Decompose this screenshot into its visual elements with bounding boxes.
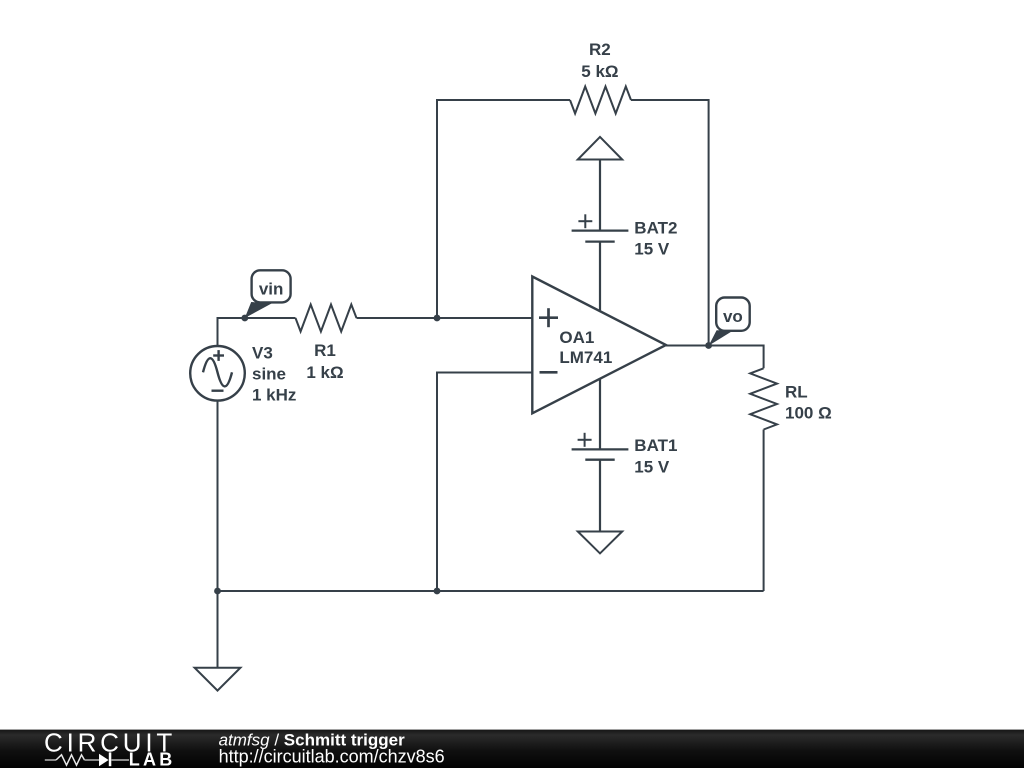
svg-text:100 Ω: 100 Ω	[785, 404, 832, 423]
svg-text:RL: RL	[785, 383, 808, 402]
wire R2 right down to output node	[631, 100, 709, 346]
bottom rail wire	[218, 590, 764, 592]
CircuitLab logo wordmark	[44, 727, 176, 757]
voltage source V3	[190, 346, 245, 401]
svg-text:BAT1: BAT1	[634, 436, 677, 455]
wire RL bottom to rail	[763, 430, 765, 592]
node flag vin	[245, 270, 291, 318]
svg-text:R1: R1	[314, 341, 336, 360]
svg-text:LM741: LM741	[559, 348, 612, 367]
label RL value	[785, 383, 832, 423]
svg-text:R2: R2	[589, 40, 611, 59]
ground symbol	[195, 591, 241, 691]
resistor R1	[296, 305, 357, 332]
wire from node A up to R2 left	[437, 100, 570, 318]
svg-text:http://circuitlab.com/chzv8s6: http://circuitlab.com/chzv8s6	[219, 747, 445, 767]
label R1 value	[306, 341, 343, 382]
resistor RL	[750, 368, 777, 429]
battery BAT2	[572, 214, 629, 310]
node junction dot vin	[241, 315, 248, 322]
label R2 value	[581, 40, 618, 81]
label BAT1 value	[634, 436, 677, 477]
node junction dot vo	[705, 342, 712, 349]
label OA1 value	[559, 328, 612, 367]
resistor R2	[570, 87, 631, 114]
svg-text:1 kHz: 1 kHz	[252, 386, 296, 405]
footer bar	[0, 730, 1024, 768]
svg-text:BAT2: BAT2	[634, 219, 677, 238]
label BAT2 value	[634, 219, 677, 259]
svg-text:vo: vo	[723, 307, 743, 326]
svg-text:15 V: 15 V	[634, 457, 670, 476]
node junction dot A	[434, 315, 441, 322]
svg-text:V3: V3	[252, 344, 273, 363]
wire V3 to R1	[218, 318, 296, 346]
svg-text:vin: vin	[259, 280, 284, 299]
node flag vo	[709, 298, 750, 346]
svg-text:LAB: LAB	[129, 750, 176, 768]
wire R1 right to op-amp + input	[357, 317, 533, 319]
node junction dot rail left	[214, 588, 221, 595]
wire op-amp minus input branch	[437, 373, 532, 592]
svg-text:5 kΩ: 5 kΩ	[581, 62, 618, 81]
svg-text:OA1: OA1	[559, 328, 594, 347]
wire V3 bottom to rail	[217, 401, 219, 591]
battery BAT1	[572, 378, 629, 532]
node junction dot rail mid	[434, 588, 441, 595]
label V3 value	[252, 344, 296, 405]
wire op-amp output to RL	[666, 346, 764, 369]
CircuitLab logo resistor-diode-LAB row	[45, 750, 176, 768]
svg-text:1 kΩ: 1 kΩ	[306, 363, 343, 382]
svg-text:sine: sine	[252, 365, 286, 384]
op-amp U1 triangle	[532, 277, 666, 414]
power arrow V+	[578, 137, 622, 231]
svg-text:15 V: 15 V	[634, 240, 670, 259]
power arrow V-	[578, 532, 622, 554]
